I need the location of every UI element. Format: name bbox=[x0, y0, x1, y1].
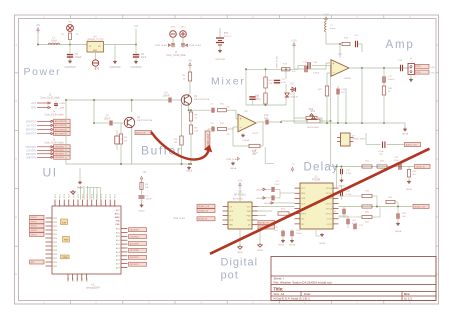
svg-text:47uF: 47uF bbox=[253, 152, 258, 154]
svg-text:−: − bbox=[333, 71, 335, 75]
svg-text:GND: GND bbox=[68, 277, 70, 282]
svg-text:9V-1x,2: 9V-1x,2 bbox=[224, 36, 232, 38]
svg-text:Rev:: Rev: bbox=[404, 292, 410, 296]
svg-text:+12V: +12V bbox=[31, 103, 37, 105]
svg-text:Amp: Amp bbox=[386, 39, 415, 51]
svg-text:Conn_01x02_Male: Conn_01x02_Male bbox=[40, 98, 60, 100]
svg-text:GPIO/PB6: GPIO/PB6 bbox=[130, 250, 139, 252]
svg-text:+5V: +5V bbox=[291, 164, 295, 166]
svg-text:VCC: VCC bbox=[247, 206, 252, 208]
svg-text:FWD BTN: FWD BTN bbox=[26, 147, 37, 149]
svg-text:ADC/GPIO: ADC/GPIO bbox=[130, 242, 140, 245]
svg-text:+9V: +9V bbox=[36, 24, 41, 27]
svg-text:ALPS10kB: ALPS10kB bbox=[233, 198, 243, 201]
svg-text:GND: GND bbox=[86, 277, 88, 282]
svg-text:SPK-: SPK- bbox=[431, 73, 436, 75]
svg-text:100nF: 100nF bbox=[163, 96, 170, 98]
svg-text:GNDA: GNDA bbox=[256, 189, 263, 192]
svg-text:4: 4 bbox=[69, 204, 71, 205]
svg-text:10: 10 bbox=[96, 203, 98, 205]
svg-text:pot: pot bbox=[221, 270, 239, 282]
svg-text:GNDA: GNDA bbox=[406, 188, 413, 191]
svg-text:File: Weather Station DA (SAID: File: Weather Station DA (SAIDA inicial)… bbox=[274, 280, 333, 284]
svg-text:SPK+: SPK+ bbox=[431, 67, 437, 69]
svg-text:OUT2: OUT2 bbox=[326, 224, 332, 226]
svg-text:GPIO/PC5: GPIO/PC5 bbox=[130, 264, 139, 266]
svg-text:GNDA: GNDA bbox=[256, 197, 263, 200]
svg-text:PT2399: PT2399 bbox=[312, 180, 321, 182]
svg-text:GNDPWR: GNDPWR bbox=[131, 66, 142, 69]
svg-text:VSS: VSS bbox=[301, 198, 306, 200]
svg-text:GNDA: GNDA bbox=[402, 133, 409, 136]
svg-text:Power: Power bbox=[24, 66, 62, 78]
svg-text:GNDA: GNDA bbox=[230, 167, 237, 170]
svg-text:2.2uF: 2.2uF bbox=[346, 173, 352, 175]
svg-text:100uF: 100uF bbox=[388, 79, 395, 81]
svg-text:RV2: RV2 bbox=[309, 109, 314, 111]
svg-text:6: 6 bbox=[78, 204, 80, 205]
svg-text:ADC/GPIO12: ADC/GPIO12 bbox=[55, 128, 66, 131]
svg-text:BT1: BT1 bbox=[224, 33, 229, 35]
svg-text:33uH: 33uH bbox=[51, 39, 57, 42]
svg-text:PWR_FLAG: PWR_FLAG bbox=[226, 158, 238, 161]
svg-text:47uF: 47uF bbox=[281, 82, 287, 84]
svg-text:D: D bbox=[436, 215, 438, 219]
svg-text:DELAY_P0: DELAY_P0 bbox=[259, 221, 268, 224]
svg-text:4.7uF: 4.7uF bbox=[393, 160, 399, 162]
svg-text:AUDIO_IN: AUDIO_IN bbox=[136, 131, 146, 134]
svg-text:Digital: Digital bbox=[221, 257, 259, 269]
svg-text:GND: GND bbox=[31, 108, 36, 110]
svg-text:C: C bbox=[436, 157, 438, 161]
svg-text:E: E bbox=[437, 272, 439, 276]
svg-text:GND: GND bbox=[77, 277, 79, 282]
svg-text:13: 13 bbox=[110, 203, 112, 205]
svg-text:SPK-: SPK- bbox=[416, 72, 421, 74]
svg-text:ADC/GPIO13: ADC/GPIO13 bbox=[55, 132, 66, 135]
svg-text:XTAL: XTAL bbox=[115, 223, 120, 226]
svg-text:100uF: 100uF bbox=[75, 57, 82, 59]
svg-text:GNDPWR: GNDPWR bbox=[65, 66, 76, 69]
svg-text:UI: UI bbox=[43, 166, 58, 180]
svg-text:VCC: VCC bbox=[301, 188, 306, 190]
svg-text:9: 9 bbox=[92, 204, 94, 205]
svg-text:DELAY_OUT: DELAY_OUT bbox=[414, 205, 426, 208]
svg-text:+BT1: +BT1 bbox=[180, 27, 186, 29]
svg-text:+5V: +5V bbox=[238, 181, 243, 183]
svg-text:GNDA: GNDA bbox=[186, 170, 193, 173]
svg-text:100nF: 100nF bbox=[104, 119, 111, 121]
svg-text:GNDA: GNDA bbox=[278, 244, 285, 247]
svg-text:Id: 1/1: Id: 1/1 bbox=[404, 297, 412, 301]
svg-text:D: D bbox=[15, 215, 17, 219]
svg-text:Title:: Title: bbox=[274, 286, 284, 291]
svg-text:14: 14 bbox=[115, 203, 117, 205]
svg-text:C10: C10 bbox=[264, 115, 269, 117]
svg-text:GPIO2: GPIO2 bbox=[31, 226, 37, 228]
svg-text:47uF: 47uF bbox=[275, 184, 281, 186]
svg-text:GND: GND bbox=[73, 277, 75, 282]
svg-text:SLT POT: SLT POT bbox=[27, 125, 37, 127]
svg-text:-BT1: -BT1 bbox=[171, 27, 177, 29]
svg-text:OP1-A: OP1-A bbox=[326, 187, 333, 190]
svg-text:OP2-O: OP2-O bbox=[326, 203, 333, 205]
svg-text:OP3-A: OP3-A bbox=[326, 207, 333, 210]
svg-text:−: − bbox=[240, 126, 242, 130]
svg-text:REV BTN: REV BTN bbox=[26, 154, 36, 156]
svg-text:VO: VO bbox=[98, 46, 101, 48]
svg-text:E: E bbox=[15, 272, 17, 276]
svg-text:ferrite: ferrite bbox=[330, 27, 336, 30]
svg-text:BJP/P2N2222A: BJP/P2N2222A bbox=[194, 98, 210, 101]
svg-text:GNDPWR: GNDPWR bbox=[110, 66, 121, 69]
svg-text:+12V: +12V bbox=[323, 14, 329, 17]
svg-text:GPIO4: GPIO4 bbox=[31, 234, 37, 236]
svg-text:+12V: +12V bbox=[291, 40, 297, 43]
svg-text:DELAY_CLK: DELAY_CLK bbox=[198, 205, 210, 208]
svg-text:GNDD: GNDD bbox=[138, 211, 145, 213]
svg-text:A: A bbox=[437, 43, 439, 47]
svg-text:SCK: SCK bbox=[229, 211, 234, 213]
svg-text:GPIO1: GPIO1 bbox=[31, 221, 37, 223]
svg-text:100nF: 100nF bbox=[296, 233, 303, 235]
svg-text:C: C bbox=[15, 157, 17, 161]
svg-text:GNDPWR: GNDPWR bbox=[215, 59, 225, 61]
svg-text:4.7uF: 4.7uF bbox=[378, 151, 384, 153]
svg-text:SHF BTN: SHF BTN bbox=[26, 157, 36, 159]
svg-text:GPIO/PD4: GPIO/PD4 bbox=[130, 236, 139, 238]
svg-text:DELAY_IN: DELAY_IN bbox=[416, 165, 426, 168]
svg-text:7: 7 bbox=[83, 204, 85, 205]
svg-text:-VBB: -VBB bbox=[59, 108, 65, 110]
svg-text:PWR_FLAG: PWR_FLAG bbox=[276, 56, 279, 68]
svg-text:PWR_FLAG: PWR_FLAG bbox=[155, 44, 167, 47]
svg-text:B: B bbox=[437, 99, 439, 103]
svg-text:1M: 1M bbox=[124, 141, 127, 143]
svg-text:LM386_DIP8: LM386_DIP8 bbox=[352, 139, 366, 141]
svg-text:10uF: 10uF bbox=[141, 57, 147, 59]
svg-text:+: + bbox=[240, 117, 242, 121]
svg-text:100nF: 100nF bbox=[146, 199, 153, 201]
svg-text:CLK: CLK bbox=[301, 203, 306, 205]
svg-text:LOP BTN: LOP BTN bbox=[26, 150, 36, 152]
svg-text:GND: GND bbox=[82, 277, 84, 282]
svg-text:GRN POT: GRN POT bbox=[26, 134, 37, 136]
svg-text:GNDD: GNDD bbox=[237, 252, 244, 254]
svg-text:8: 8 bbox=[87, 204, 89, 205]
svg-text:4.7uF: 4.7uF bbox=[352, 223, 358, 225]
svg-text:GPIO0: GPIO0 bbox=[31, 217, 37, 219]
svg-text:AREF: AREF bbox=[115, 216, 121, 219]
svg-text:LM7805_TO220: LM7805_TO220 bbox=[87, 39, 104, 41]
svg-text:1: 1 bbox=[55, 204, 57, 205]
svg-text:GPIO3: GPIO3 bbox=[31, 230, 37, 232]
svg-text:1uF: 1uF bbox=[264, 118, 269, 120]
svg-text:KiCad E.D.A. kicad (5.1.9)-1: KiCad E.D.A. kicad (5.1.9)-1 bbox=[274, 297, 311, 301]
svg-text:+5V: +5V bbox=[134, 25, 139, 28]
svg-text:ALPS/10kB: ALPS/10kB bbox=[307, 126, 319, 129]
svg-text:OUT1: OUT1 bbox=[326, 219, 332, 221]
svg-text:GPIO/PD3: GPIO/PD3 bbox=[55, 157, 64, 159]
svg-text:GPIO/PB7: GPIO/PB7 bbox=[130, 257, 139, 259]
svg-text:PWM: PWM bbox=[63, 257, 68, 259]
svg-text:Delay: Delay bbox=[304, 162, 339, 174]
svg-text:11: 11 bbox=[101, 203, 103, 205]
svg-text:TL072: TL072 bbox=[252, 133, 259, 135]
svg-text:B: B bbox=[15, 99, 17, 103]
svg-text:GNDA: GNDA bbox=[243, 139, 250, 142]
svg-text:DELAY/D3: DELAY/D3 bbox=[130, 228, 139, 231]
svg-text:+: + bbox=[333, 62, 335, 66]
svg-text:GNDA: GNDA bbox=[289, 244, 296, 247]
svg-text:1M: 1M bbox=[174, 142, 177, 144]
svg-text:RV1: RV1 bbox=[311, 111, 316, 113]
svg-text:GNDA: GNDA bbox=[395, 230, 402, 233]
svg-text:BFU POT: BFU POT bbox=[26, 130, 37, 132]
svg-text:Size: A4: Size: A4 bbox=[274, 292, 285, 296]
svg-text:PWR_FLAG: PWR_FLAG bbox=[173, 217, 185, 220]
svg-text:ADC/GPIO11: ADC/GPIO11 bbox=[55, 124, 66, 127]
svg-text:100nF: 100nF bbox=[313, 73, 320, 75]
svg-text:Conn_01x04_Male: Conn_01x04_Male bbox=[44, 143, 64, 145]
svg-text:OP3-O: OP3-O bbox=[326, 214, 333, 216]
svg-text:+9V: +9V bbox=[68, 22, 72, 24]
svg-text:Conn_01x04_Male: Conn_01x04_Male bbox=[44, 115, 64, 117]
svg-text:-BT1: -BT1 bbox=[94, 69, 100, 71]
svg-text:VCC: VCC bbox=[116, 210, 121, 212]
svg-text:Conn_01x02_Male: Conn_01x02_Male bbox=[166, 55, 186, 57]
svg-text:GND: GND bbox=[116, 220, 121, 222]
svg-text:GNDA: GNDA bbox=[264, 202, 271, 205]
svg-text:PWR: PWR bbox=[64, 240, 69, 242]
svg-text:Date:: Date: bbox=[304, 292, 311, 296]
svg-text:GNDD: GNDD bbox=[257, 250, 264, 252]
svg-text:GND: GND bbox=[93, 50, 98, 52]
svg-text:GNDA: GNDA bbox=[319, 242, 326, 245]
svg-text:DELAY_CS: DELAY_CS bbox=[198, 209, 208, 212]
svg-text:GNDD: GNDD bbox=[77, 188, 84, 190]
svg-text:Mixer: Mixer bbox=[211, 76, 246, 88]
svg-text:ADC/GPIO10: ADC/GPIO10 bbox=[55, 120, 66, 123]
svg-text:3: 3 bbox=[64, 204, 66, 205]
svg-text:5: 5 bbox=[73, 204, 75, 205]
svg-text:+5V: +5V bbox=[142, 172, 147, 174]
svg-text:+VBB: +VBB bbox=[59, 103, 65, 105]
svg-text:AUDIO_OUT: AUDIO_OUT bbox=[406, 143, 418, 146]
svg-text:PWR_FLAG: PWR_FLAG bbox=[189, 44, 201, 47]
svg-text:BJP/P2N2222A: BJP/P2N2222A bbox=[137, 119, 153, 122]
svg-text:VSS: VSS bbox=[229, 220, 234, 222]
svg-text:12: 12 bbox=[106, 203, 108, 205]
svg-text:AVCC: AVCC bbox=[115, 212, 121, 215]
svg-text:atmega328-P: atmega328-P bbox=[86, 287, 100, 290]
svg-text:LM386: LM386 bbox=[344, 78, 351, 80]
svg-text:+5V: +5V bbox=[188, 60, 193, 63]
svg-text:MCP41010: MCP41010 bbox=[234, 195, 246, 197]
svg-text:47uF: 47uF bbox=[256, 99, 262, 101]
svg-text:DELAY_SI: DELAY_SI bbox=[198, 218, 207, 221]
svg-text:SKB POT: SKB POT bbox=[26, 121, 37, 123]
svg-text:2: 2 bbox=[60, 204, 62, 205]
svg-text:A: A bbox=[15, 43, 17, 47]
